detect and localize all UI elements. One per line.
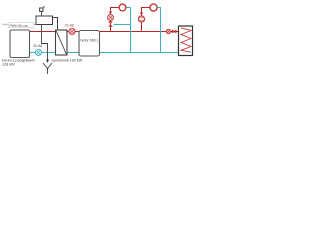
circuit circle C2	[150, 4, 157, 11]
wire cyan return boiler to exchanger	[30, 52, 56, 54]
svg-text:PWH 90 cm: PWH 90 cm	[10, 24, 28, 28]
heat exchanger W1	[56, 30, 68, 55]
svg-text:bufor 500 L: bufor 500 L	[81, 39, 99, 43]
wire cyan return buffer to radiator	[100, 52, 179, 54]
wire annotation leader line top-left	[2, 21, 38, 24]
radiator R1	[179, 26, 193, 56]
riser branch 2 wire	[142, 8, 150, 32]
wire red supply main boiler to exchanger	[30, 31, 56, 33]
mixing valve branch 1	[108, 21, 113, 26]
pump branch 2	[138, 16, 144, 22]
pump P1 red	[69, 29, 75, 35]
wire cyan return exchanger to buffer	[67, 52, 79, 54]
radiator coil zigzag	[181, 28, 191, 52]
expansion vessel N1	[36, 16, 53, 25]
node label tag PWH	[9, 23, 34, 28]
wire red supply main exchanger to buffer	[67, 31, 79, 33]
svg-text:wymiennik 192 kW: wymiennik 192 kW	[52, 59, 83, 63]
wire cyan return riser 1	[127, 8, 131, 54]
check valve branch 2	[140, 11, 143, 14]
wire vessel to pipe elbow	[53, 18, 58, 31]
pump branch 1	[108, 15, 114, 21]
circuit circle C1	[119, 4, 126, 11]
wire safety discharge pipe	[42, 25, 48, 60]
wire cyan return riser 2	[158, 8, 161, 54]
wire red supply main buffer to radiator valve	[100, 31, 179, 33]
boiler K1	[10, 30, 30, 58]
svg-text:128 kW: 128 kW	[2, 63, 15, 67]
riser branch 1 wire	[111, 8, 120, 32]
check valve branch 1	[109, 12, 112, 15]
radiator valve V1	[166, 29, 170, 33]
drain arrowhead	[46, 60, 49, 64]
pump P2 cyan	[36, 50, 42, 56]
safety valve on vessel	[41, 12, 43, 17]
svg-text:23-88: 23-88	[65, 24, 74, 28]
drain funnel	[43, 63, 52, 69]
wire cyan bypass	[114, 24, 131, 26]
buffer tank B1	[79, 31, 100, 57]
svg-text:25-88: 25-88	[33, 44, 42, 48]
